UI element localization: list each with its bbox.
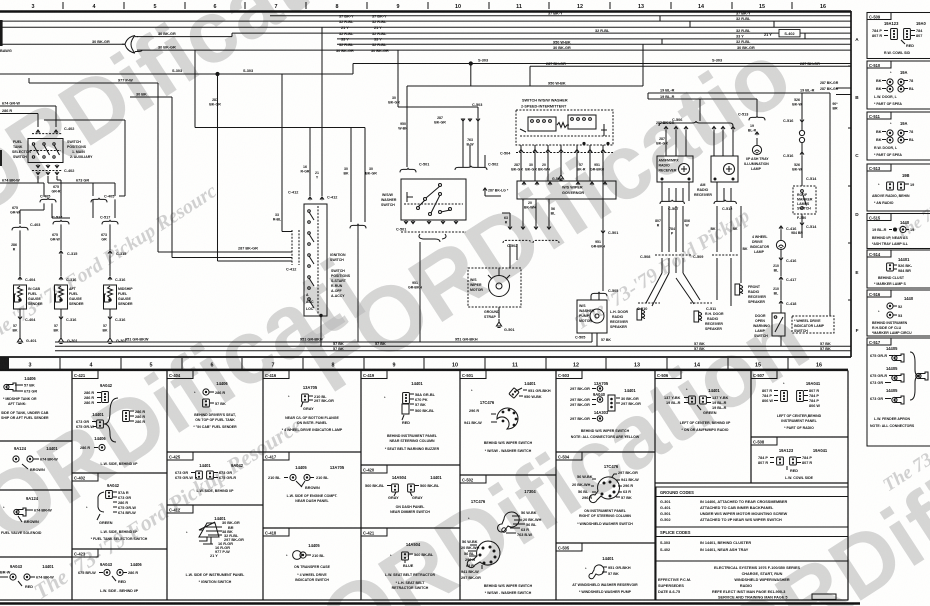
ignition switch xyxy=(304,204,327,317)
wire 16 R-GR drop xyxy=(309,128,311,197)
wire 287 BK-GR to C-504 right label xyxy=(656,121,675,125)
right box C-515 xyxy=(867,214,930,249)
connector C-501 brace washer switch xyxy=(400,163,429,173)
4WD indicator lamp switch note xyxy=(792,316,834,333)
connector C-315 xyxy=(59,251,77,276)
border top thick xyxy=(0,10,851,12)
fuel gauge sender unit 1 xyxy=(14,285,27,309)
wire 57 BK bus upper xyxy=(55,345,851,347)
wires to door speakers xyxy=(646,258,731,306)
S-303 labels xyxy=(172,59,722,73)
wire 675 GR-W to C-403 xyxy=(20,203,44,224)
bus wire 32 R-BL row F xyxy=(337,43,851,45)
connector C-316 upper xyxy=(108,251,126,276)
wire 287 BK-GR right upper xyxy=(530,66,851,86)
washer switch lower brace xyxy=(419,234,446,242)
right border ticks xyxy=(848,66,851,300)
wire 287 BK-GR stubs right border xyxy=(836,88,851,95)
connector C-502 brace row xyxy=(503,226,559,248)
connector C-502 brace washer switch xyxy=(455,111,498,171)
connector C-501 below washer switch xyxy=(396,221,466,233)
wiper drop labels xyxy=(511,163,604,172)
cell C-508 xyxy=(751,437,828,480)
cell C-421 xyxy=(72,371,145,467)
watermark script center xyxy=(29,412,306,604)
door open warning lamp switch SW4 xyxy=(753,313,785,346)
sender3 caption xyxy=(118,287,133,306)
bus left labels 30 BK-GR xyxy=(0,32,176,53)
bus wire 30 BK-GR row G xyxy=(137,49,851,51)
cell C-418 xyxy=(263,528,331,582)
right box C-514 xyxy=(867,250,930,288)
ground G-301 xyxy=(58,335,77,344)
cell 9A043 14401 red xyxy=(0,564,54,589)
wire 57 BK bus lower xyxy=(55,350,851,352)
radio speaker wires down xyxy=(662,182,741,283)
wire 673 GR right xyxy=(48,176,115,196)
C-505 label below pump xyxy=(575,336,611,343)
right box C-516 xyxy=(867,290,930,336)
bus labels right cluster xyxy=(548,11,755,50)
cell C-416 xyxy=(263,371,343,433)
cell C-417 xyxy=(263,452,345,503)
cell C-506 xyxy=(655,371,731,433)
fuel tank selector switch S1 xyxy=(28,139,63,163)
sender2 caption xyxy=(69,287,84,306)
fuel gauge sender unit 3 xyxy=(104,285,117,309)
connector C-503 fan xyxy=(461,103,482,127)
splice line S-303 left xyxy=(0,62,851,76)
ground G-401 xyxy=(17,335,36,344)
top ruler ticks xyxy=(63,2,792,9)
roof marker lamps switch SW3 xyxy=(793,186,816,214)
wire 675 GR-W sender2 xyxy=(61,224,66,250)
W/S/W washer switch SW2 xyxy=(401,179,466,220)
bus wire 32 R-BL row D xyxy=(232,33,851,37)
connector C-316 sender3 xyxy=(108,254,125,282)
wiper motor feeds xyxy=(499,244,517,318)
wire pair to brace xyxy=(351,128,365,223)
connector C-510 C-511 dashed xyxy=(637,303,716,311)
wire 950 W-BK horizontal xyxy=(407,44,643,167)
wire 951 GR-BKH long drop xyxy=(419,242,421,342)
wire 287 BK-GR drop from S-303 xyxy=(218,74,293,261)
cell C-404 xyxy=(167,371,237,430)
wire 951 GR-BKH washer drop xyxy=(602,153,604,230)
washer switch caption xyxy=(381,193,397,207)
bus wire 37 BK-Y xyxy=(270,15,851,17)
marker lamp circuit C-516 xyxy=(783,93,817,186)
wire 674 BR-W left xyxy=(0,176,44,196)
wire 30 BK xyxy=(130,97,292,258)
wire 57 BK gnd1 xyxy=(19,320,21,336)
ignition switch caption xyxy=(330,253,346,262)
fuel selector left caption xyxy=(12,140,31,159)
wire 57 BK gnd3 xyxy=(109,320,111,336)
fuel selector right caption xyxy=(67,140,93,159)
connector C-417 xyxy=(773,277,796,300)
right row letters xyxy=(855,37,859,333)
57 BK labels xyxy=(333,342,831,351)
wire 33 R-BL drop xyxy=(282,74,292,232)
cell C-412 xyxy=(167,505,245,584)
AM radio receiver U2 xyxy=(711,156,738,182)
node 977 P-W left stub xyxy=(28,78,30,83)
connector C-418 xyxy=(779,301,796,313)
ignition switch connectors C-412 top xyxy=(288,191,337,201)
connector brace pair xyxy=(350,224,366,342)
watermark FORDification bottom-right corner xyxy=(656,433,930,606)
border right xyxy=(850,11,852,357)
cell 9A124 14401 xyxy=(13,446,59,472)
splice box S-402 xyxy=(764,30,800,37)
ground G-301 sender3 xyxy=(107,335,126,344)
connector C-402 lower xyxy=(32,165,74,175)
wire 674 GR-W left stub xyxy=(0,106,56,127)
connector C-517 right xyxy=(93,199,118,224)
AM/FM/MPX radio receiver U1 xyxy=(657,156,693,182)
L.H. door radio receiver speaker LS2 xyxy=(610,309,645,329)
cell C-507 xyxy=(751,371,822,431)
bus wire 30 BK-GR left feed xyxy=(0,37,232,45)
connector C-402 upper xyxy=(32,127,74,134)
wire 286 R to C-405 xyxy=(44,120,125,196)
ignition switch positions caption xyxy=(331,269,351,298)
wiper switch wire drops xyxy=(521,145,603,181)
sender1 caption xyxy=(28,287,43,306)
wiper switch W/S assembly xyxy=(516,110,613,145)
speaker wire labels xyxy=(655,219,748,251)
connector C-316 sender2 xyxy=(59,277,76,282)
connector C-316 below sender2 xyxy=(59,309,76,322)
connector C-505 brace xyxy=(591,289,618,296)
washer switch feeds C-501 xyxy=(407,86,413,167)
I/P ash tray illumination lamp DS1 xyxy=(744,132,769,171)
bottom ruler numbers xyxy=(29,363,823,369)
connector plug top-left xyxy=(122,36,142,54)
top ruler numbers xyxy=(32,4,827,10)
connector C-404 below sender1 xyxy=(18,309,36,322)
connector C-403 xyxy=(12,223,40,230)
wire 210 BL xyxy=(780,260,782,276)
wire 30 BK feeder xyxy=(195,50,365,127)
bus wire 33 Y row E xyxy=(337,38,851,40)
cell C-502 xyxy=(460,475,542,595)
cell C-419 xyxy=(361,371,440,452)
wire 675 GR-R drop xyxy=(57,180,61,218)
ground G-502 small xyxy=(552,172,564,181)
watermark script far right xyxy=(879,426,930,497)
W/S wiper governor xyxy=(517,181,616,199)
cell C-420 xyxy=(361,465,442,514)
fuel gauge sender unit 2 xyxy=(55,285,68,309)
bottom border thick xyxy=(0,602,860,605)
F-350 label xyxy=(791,214,817,238)
connector C-512 brace xyxy=(714,200,736,211)
connector C-506 brace xyxy=(659,99,735,130)
grid outer borders xyxy=(0,371,848,601)
ground G-501 xyxy=(496,319,514,332)
watermark FORDification center xyxy=(0,241,382,592)
left edge scan bar xyxy=(0,20,3,46)
wire 983 BR right drop xyxy=(829,93,831,316)
wire 286 R left stub xyxy=(0,114,38,128)
wire 951 GR-BKH bus xyxy=(55,333,592,342)
cell C-504 xyxy=(556,452,639,526)
cell C-503 xyxy=(556,371,641,440)
connector C-507 brace xyxy=(660,200,684,211)
connector C-517 left xyxy=(52,203,70,224)
connector C-405 right xyxy=(91,195,114,203)
bus wire 21 Y row C xyxy=(0,26,851,28)
wire 287 BK-GR radio drop xyxy=(666,130,733,156)
connector C-412 column xyxy=(286,230,299,272)
connector C-404 sender1 xyxy=(18,277,36,282)
W/S washer pump motor M2 xyxy=(577,293,607,346)
wire 19 BL-R pair xyxy=(648,93,830,99)
connector C-316 below sender3 xyxy=(108,309,125,322)
left edge scan bar xyxy=(0,0,1,1)
watermark script right xyxy=(571,205,754,334)
wire 30 BK-GR drop to wiper xyxy=(398,50,478,107)
bottom ruler band xyxy=(0,357,851,370)
cell C-425 xyxy=(167,452,244,493)
4 wheel drive indicator lamp DS2 xyxy=(750,226,796,263)
right box C-517 xyxy=(867,338,930,446)
bus step jogs right xyxy=(660,16,805,45)
governor wire drops xyxy=(502,199,549,226)
watermark FORDification bottom-right xyxy=(255,287,825,606)
cell C-505 xyxy=(556,543,638,594)
front radio receiver speaker LS1 xyxy=(735,284,766,304)
R.H. door radio receiver speaker LS3 xyxy=(694,311,724,331)
watermark FORDification right xyxy=(285,23,808,412)
wiper switch caption xyxy=(521,99,568,109)
bus wire 32 R-BL row B xyxy=(0,20,851,22)
right box C-513 xyxy=(867,164,930,211)
connector C-501 washer pump brace xyxy=(601,230,618,291)
cell C-423 xyxy=(72,549,142,593)
connector C-504 row xyxy=(500,150,613,156)
right box C-509 xyxy=(867,13,930,59)
cell C-402 xyxy=(72,473,148,541)
connector C-508 C-509 dashed row xyxy=(640,255,738,259)
ground codes table xyxy=(656,487,848,527)
cell C-421 seat belt xyxy=(361,528,435,590)
wire ignition to 57BK bus xyxy=(320,316,322,346)
wire 977 P-W xyxy=(29,83,292,252)
connector C-405 left xyxy=(40,195,56,203)
W/S wiper motor M1 xyxy=(468,268,521,307)
cell fuel valve solenoid xyxy=(1,496,52,535)
cell C-501 xyxy=(460,371,551,454)
wire 21 Y drop xyxy=(321,27,323,196)
title block xyxy=(656,561,848,600)
bus labels mid cluster xyxy=(336,14,389,52)
watermark script right mid xyxy=(892,192,930,243)
splice codes table xyxy=(656,527,848,561)
wire 57 BK gnd2 xyxy=(60,320,62,336)
wire 286 R sender1 xyxy=(19,230,21,276)
right box C-511 xyxy=(867,112,930,160)
AM radio caption xyxy=(694,183,712,197)
connector C-513 xyxy=(738,99,765,133)
right box C-510 xyxy=(867,61,930,109)
cell midship sender xyxy=(1,376,49,420)
watermark FORDification top-left xyxy=(0,0,322,266)
wire 287 BK-LG stub xyxy=(483,188,501,196)
wire 673 GR sender3 xyxy=(109,224,111,250)
ground strap caption xyxy=(484,310,500,319)
watermark script top-left xyxy=(0,180,221,349)
